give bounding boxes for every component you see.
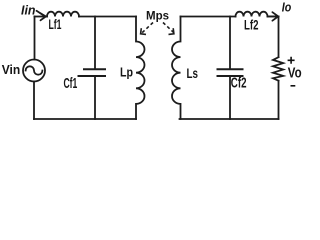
inductor Ls <box>172 17 181 120</box>
wire top-left horizontal <box>35 16 48 18</box>
capacitor Cf1 plates <box>79 69 106 76</box>
inductor Lf2 <box>236 12 268 17</box>
label minus sign <box>291 85 296 87</box>
source Vin sine <box>26 66 43 74</box>
wire right vertical lower <box>278 81 280 119</box>
wire bottom right <box>180 118 279 120</box>
wire top right horizontal <box>181 16 236 18</box>
wire top middle (Lf1 to Lp corner) <box>79 16 136 18</box>
wire right vertical upper <box>278 17 280 58</box>
capacitor Cf1 bottom lead <box>94 77 96 119</box>
capacitor Cf2 plates <box>218 69 243 76</box>
label plus sign <box>288 57 295 64</box>
svg-text:Cf1: Cf1 <box>64 76 78 92</box>
inductor Lf1 <box>47 12 79 17</box>
svg-text:Ls: Ls <box>187 65 199 81</box>
svg-text:Iin: Iin <box>21 4 36 18</box>
svg-text:Io: Io <box>282 1 292 15</box>
svg-text:Lf1: Lf1 <box>49 17 62 32</box>
wire left vertical upper <box>34 17 36 60</box>
arrow Iin on wire <box>37 11 46 20</box>
wire bottom left <box>34 118 136 120</box>
svg-text:Mps: Mps <box>146 9 169 23</box>
mutual coupling arrow to Ls (dashed) <box>163 23 174 35</box>
svg-text:Lf2: Lf2 <box>244 18 259 33</box>
svg-text:Lp: Lp <box>120 65 133 80</box>
resistor RL zigzag <box>273 57 283 80</box>
wire left vertical lower <box>33 82 35 120</box>
svg-text:Vin: Vin <box>2 62 21 77</box>
source Vin circle <box>23 60 45 82</box>
capacitor Cf2 top lead <box>229 17 231 69</box>
arrow Io on wire <box>268 12 279 21</box>
svg-text:Vo: Vo <box>288 65 302 82</box>
capacitor Cf2 bottom lead <box>229 77 231 119</box>
inductor Lp <box>136 17 145 120</box>
mutual coupling arrow to Lp (dashed) <box>141 23 153 35</box>
wire top far right <box>268 16 279 18</box>
svg-text:Cf2: Cf2 <box>231 76 247 92</box>
capacitor Cf1 top lead <box>94 17 96 69</box>
